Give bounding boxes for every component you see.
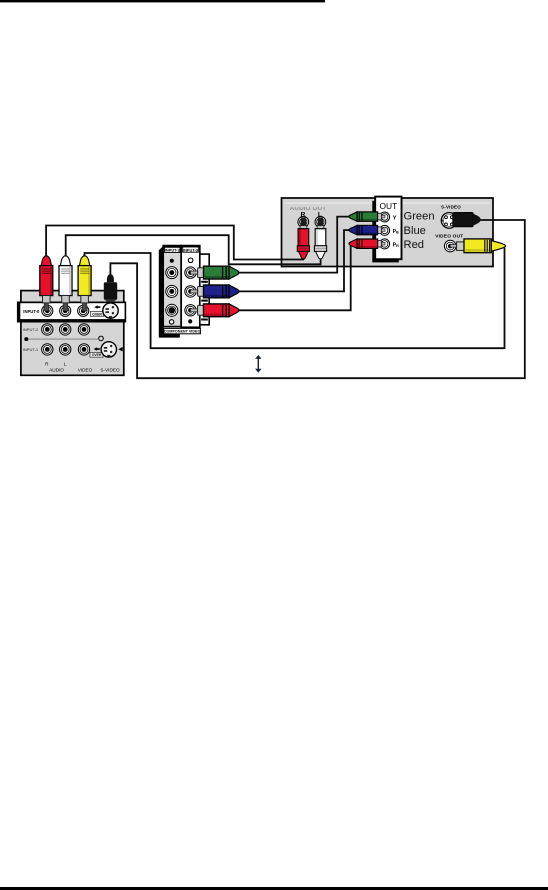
TV input-2 R jack xyxy=(42,324,53,335)
TV input-1 video jack xyxy=(78,344,89,355)
svg-text:Blue: Blue xyxy=(404,225,426,237)
INPUT-2 top dot xyxy=(170,259,174,263)
svg-text:AUDIO: AUDIO xyxy=(49,368,64,373)
TV input-1 L jack xyxy=(59,344,70,355)
wire component Y (green) xyxy=(238,217,349,273)
svg-text:PB: PB xyxy=(393,229,399,235)
INPUT-2 Pr jack xyxy=(166,304,178,316)
svg-text:COMPONENT VIDEO: COMPONENT VIDEO xyxy=(164,330,201,334)
blue component plug (DVD side) xyxy=(349,225,385,234)
video out jack xyxy=(444,240,456,252)
wire component Pr (red) xyxy=(238,244,350,311)
svg-text:Red: Red xyxy=(404,239,425,251)
INPUT-3 Pr jack xyxy=(185,305,196,316)
green component plug (DVD side) xyxy=(349,212,385,221)
svg-text:S-VIDEO: S-VIDEO xyxy=(100,368,120,373)
svg-text:OUT: OUT xyxy=(380,201,398,211)
svg-text:S-VIDEO: S-VIDEO xyxy=(441,205,461,210)
INPUT-2 bottom circle xyxy=(169,320,173,324)
svg-text:VIDEO OUT: VIDEO OUT xyxy=(435,234,463,240)
svg-text:INPUT-0: INPUT-0 xyxy=(23,309,40,314)
svg-text:INPUT-1: INPUT-1 xyxy=(23,347,39,352)
blue component plug (TV side) xyxy=(191,285,239,302)
jack bracket box xyxy=(200,254,209,325)
svg-text:Y: Y xyxy=(393,216,397,222)
green component plug (TV side) xyxy=(191,266,239,283)
red component plug (DVD side) xyxy=(349,239,385,248)
component panel top border xyxy=(163,245,200,247)
wire component Pb (blue) xyxy=(238,230,349,291)
input-0 arrow xyxy=(94,305,100,308)
red audio plug (DVD) xyxy=(297,218,309,260)
wire video (yellow) xyxy=(85,248,505,349)
TV input-1 R jack xyxy=(42,344,53,355)
svg-text:INPUT-3: INPUT-3 xyxy=(183,247,199,252)
TV input-0 R jack xyxy=(42,305,53,316)
white plug (TV input) xyxy=(59,256,72,311)
s-video out jack (DVD) xyxy=(441,213,457,229)
divider left dot xyxy=(24,337,28,341)
TV input-2 L jack xyxy=(59,324,70,335)
INPUT-2 Y jack xyxy=(166,267,178,279)
INPUT-0 row box xyxy=(17,302,126,323)
INPUT-2 Pb jack xyxy=(166,285,178,297)
label INPUT-3 (middle panel) xyxy=(183,247,199,252)
TV input-2 video jack xyxy=(78,324,89,335)
INPUT-2 column xyxy=(163,246,181,327)
svg-text:OVER: OVER xyxy=(92,312,102,316)
bottom rule xyxy=(0,887,548,890)
wire audio R (red) xyxy=(46,226,304,260)
DVD player rear panel xyxy=(282,198,494,267)
input-1 OVER label xyxy=(90,352,103,357)
TV input-0 L jack xyxy=(60,305,71,316)
input-1 arrow xyxy=(94,347,100,350)
top rule xyxy=(0,0,325,2)
component input panel shadow xyxy=(159,246,180,338)
audio out R jack xyxy=(298,217,309,228)
wire audio L (white) xyxy=(66,235,321,264)
label COMPONENT VIDEO xyxy=(164,328,201,333)
wire s-video xyxy=(110,220,524,378)
panel highlight band xyxy=(284,202,489,204)
s-video plug (DVD) xyxy=(453,213,481,227)
INPUT-3 Pb jack xyxy=(185,286,196,297)
svg-text:VIDEO: VIDEO xyxy=(78,368,93,373)
INPUT-3 Y jack xyxy=(185,267,196,278)
audio out L jack xyxy=(315,217,326,228)
divider line xyxy=(26,338,98,340)
INPUT-3 column xyxy=(181,246,200,328)
white audio plug (DVD) xyxy=(314,218,326,260)
component Y jack xyxy=(380,212,390,222)
divider right circle xyxy=(99,336,104,341)
component Pr jack xyxy=(380,239,390,249)
TV input-1 s-video jack xyxy=(101,342,116,357)
label AUDIO OUT (top-cropped) xyxy=(290,205,327,212)
svg-text:Green: Green xyxy=(404,210,435,222)
svg-text:INPUT-2: INPUT-2 xyxy=(165,248,181,253)
input-0 OVER label xyxy=(90,312,103,317)
input-1 side arrow xyxy=(118,347,122,352)
OUT box shadow xyxy=(372,201,399,263)
TV input-0 s-video jack xyxy=(103,303,118,318)
OUT box (component Y Pb Pr) xyxy=(375,197,401,260)
yellow plug (TV input) xyxy=(78,256,91,311)
svg-text:L: L xyxy=(64,362,67,367)
TV input-0 video jack xyxy=(78,305,89,316)
s-video plug (TV input) xyxy=(104,274,117,302)
label INPUT-2 (middle panel) xyxy=(165,247,181,252)
svg-text:PR: PR xyxy=(393,242,399,248)
red plug (TV input) xyxy=(40,256,53,311)
red component plug (TV side) xyxy=(191,304,239,321)
TV rear panel xyxy=(21,291,124,376)
svg-text:OVER: OVER xyxy=(92,353,102,357)
double-headed arrow xyxy=(255,355,261,373)
INPUT-3 bottom dot xyxy=(188,319,192,323)
component Pb jack xyxy=(380,225,390,235)
INPUT-3 top dot xyxy=(188,258,193,263)
yellow video plug (DVD) xyxy=(450,239,505,253)
svg-text:INPUT-2: INPUT-2 xyxy=(23,327,39,332)
